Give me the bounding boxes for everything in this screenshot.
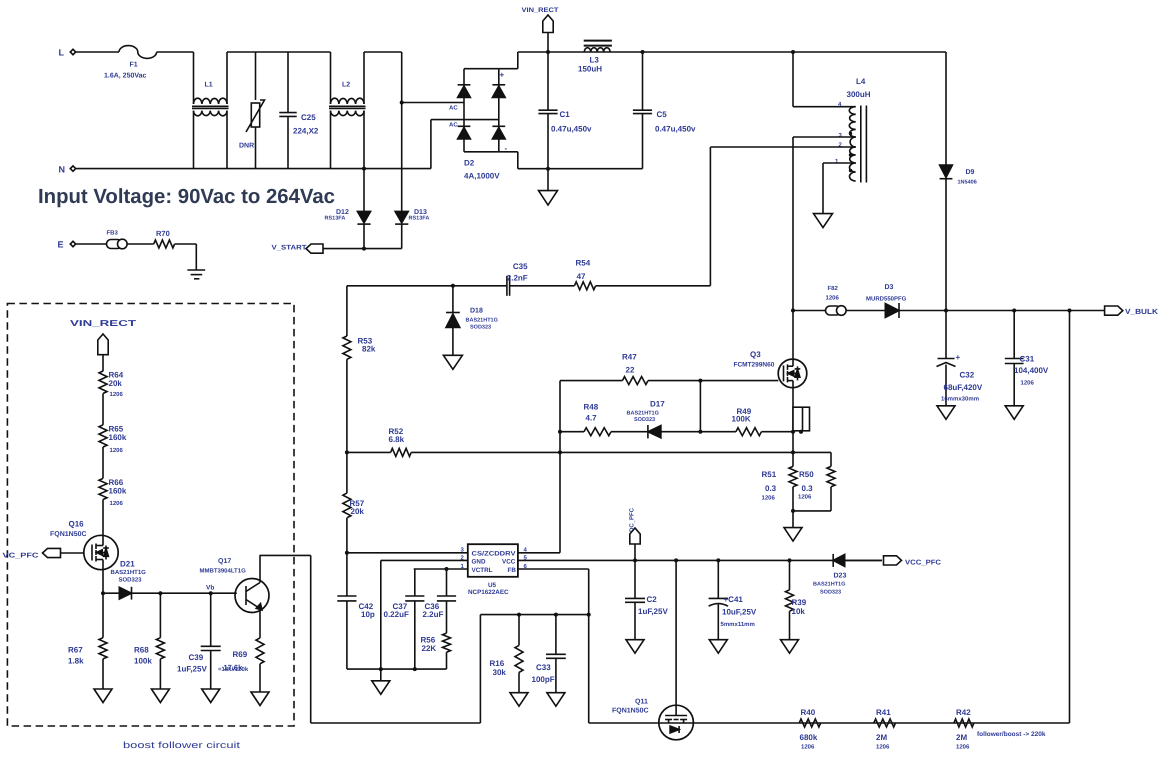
junction N-D12 — [362, 167, 366, 171]
wire L4 pin3 to switch node — [793, 137, 856, 311]
svg-text:0.22uF: 0.22uF — [384, 610, 409, 619]
ground at R67 — [94, 689, 112, 703]
diode D3 — [866, 284, 1105, 318]
transistor Q17 MMBT3904LT1G — [200, 555, 270, 638]
svg-text:100K: 100K — [732, 415, 751, 424]
resistor R68 — [134, 593, 164, 689]
svg-text:+: + — [500, 71, 505, 80]
wire FB3 to R70 — [127, 243, 154, 245]
svg-text:SOD323: SOD323 — [820, 590, 841, 596]
svg-text:10uF,25V: 10uF,25V — [722, 608, 757, 617]
node E (earth input) — [58, 240, 76, 250]
svg-text:Q3: Q3 — [750, 350, 761, 359]
svg-text:0.47u,450v: 0.47u,450v — [655, 125, 696, 134]
wire R47 to gate — [698, 379, 778, 383]
svg-text:FB3: FB3 — [107, 230, 119, 237]
resistor R57 — [343, 493, 365, 553]
svg-text:C31: C31 — [1020, 355, 1035, 364]
wire VCC to Q11 gate — [675, 560, 677, 715]
svg-text:BAS21HT1G: BAS21HT1G — [813, 582, 845, 588]
label F1 value — [104, 62, 147, 80]
svg-text:F82: F82 — [828, 285, 839, 292]
svg-text:R69: R69 — [233, 650, 248, 659]
inductor L2 (common-mode choke) — [329, 52, 366, 169]
wire VCTRL ground row — [347, 667, 447, 681]
svg-text:2.2nF: 2.2nF — [507, 274, 528, 283]
wire V_BULK feedback vertical — [1069, 311, 1071, 724]
fuse F1 — [119, 46, 157, 59]
wire VCC rail — [518, 558, 882, 562]
svg-text:R39: R39 — [792, 598, 807, 607]
svg-text:GND: GND — [472, 559, 486, 566]
ground at R16 — [510, 693, 528, 707]
ground at C39 — [202, 689, 220, 703]
svg-text:2.2uF: 2.2uF — [423, 610, 444, 619]
svg-text:1206: 1206 — [801, 744, 815, 751]
earth ground symbol — [187, 270, 205, 279]
terminal VC_PFC — [3, 548, 84, 559]
text input voltage — [38, 185, 335, 208]
svg-text:R16: R16 — [490, 659, 505, 668]
resistor R54 — [574, 259, 602, 290]
wire E to FB3 — [76, 243, 107, 245]
ground at R68 — [151, 689, 169, 703]
svg-text:68uF,420V: 68uF,420V — [944, 383, 983, 392]
svg-text:1206: 1206 — [876, 744, 890, 751]
svg-text:C25: C25 — [301, 113, 316, 122]
svg-text:0.3: 0.3 — [802, 484, 814, 493]
L4 pin numbers — [835, 101, 843, 165]
wire pin6 FB — [518, 569, 591, 723]
svg-text:RS13FA: RS13FA — [409, 216, 430, 222]
svg-text:L1: L1 — [205, 82, 213, 89]
svg-text:R68: R68 — [134, 646, 149, 655]
svg-text:R41: R41 — [876, 708, 891, 717]
svg-text:DNR: DNR — [239, 143, 254, 150]
wire top rail L2 to bridge — [364, 52, 402, 103]
svg-text:680k: 680k — [800, 733, 818, 742]
svg-text:V_BULK: V_BULK — [1125, 307, 1159, 316]
transistor Q11 FQN1N50C — [589, 699, 1070, 740]
wire rail to L4 pin4 — [793, 52, 856, 107]
svg-text:D17: D17 — [650, 400, 665, 409]
capacitor C25 — [279, 52, 319, 169]
ground at L4 pin1 — [814, 214, 833, 228]
svg-text:SOD323: SOD323 — [634, 417, 655, 423]
ferrite bead FB3 — [107, 230, 128, 249]
ground at C2 — [626, 640, 644, 654]
terminal VCC_PFC — [884, 556, 942, 567]
svg-text:100pF: 100pF — [532, 675, 555, 684]
wire source to sense — [791, 432, 795, 467]
svg-text:5mmx11mm: 5mmx11mm — [721, 621, 755, 628]
svg-text:D21: D21 — [120, 560, 135, 569]
svg-text:C2: C2 — [647, 595, 658, 604]
resistor R69 — [233, 638, 265, 692]
resistor R53 — [343, 286, 376, 360]
svg-text:20k: 20k — [351, 507, 365, 516]
wire pin4 DRV — [518, 552, 560, 554]
bridge diode bottom-left — [458, 126, 471, 139]
inductor L4 winding — [847, 77, 871, 183]
resistor R39 — [786, 560, 807, 639]
svg-text:224,X2: 224,X2 — [293, 127, 319, 136]
svg-text:R42: R42 — [956, 708, 971, 717]
resistor R48 — [560, 403, 648, 436]
svg-text:VC_PFC: VC_PFC — [3, 553, 39, 560]
ground at C41 — [709, 640, 727, 654]
svg-text:Q16: Q16 — [69, 520, 85, 529]
svg-text:30k: 30k — [493, 668, 507, 677]
svg-text:BAS21HT1G: BAS21HT1G — [627, 411, 659, 417]
bridge labels — [449, 71, 508, 181]
svg-text:C35: C35 — [513, 262, 528, 271]
svg-text:Q17: Q17 — [218, 558, 231, 565]
resistor R49 — [700, 407, 795, 436]
capacitor C31 — [1005, 311, 1049, 406]
note follower/boost — [977, 731, 1046, 738]
resistor R65 — [99, 425, 127, 479]
svg-text:1N5406: 1N5406 — [958, 180, 977, 186]
svg-text:FQN1N50C: FQN1N50C — [50, 531, 87, 538]
svg-text:boost follower circuit: boost follower circuit — [123, 740, 241, 750]
wire FB to follower — [260, 555, 481, 723]
svg-text:10k: 10k — [792, 607, 806, 616]
svg-text:1206: 1206 — [762, 495, 776, 502]
sense box below Q3 — [793, 407, 810, 434]
svg-text:1206: 1206 — [798, 494, 812, 501]
wire L4 pin1 to ground — [823, 163, 856, 214]
varistor DNR — [239, 52, 265, 169]
wire R70 to earth — [175, 244, 197, 270]
ground at C1 — [539, 167, 558, 205]
bridge rectifier D2 frame — [464, 52, 518, 169]
svg-text:1206: 1206 — [956, 744, 970, 751]
capacitor C32 (bulk electrolytic) — [937, 311, 983, 406]
svg-text:1206: 1206 — [110, 391, 124, 398]
svg-text:1.8k: 1.8k — [68, 657, 84, 666]
svg-text:22: 22 — [626, 366, 635, 375]
wire pin2 GND — [381, 560, 468, 669]
svg-text:V_START: V_START — [272, 245, 308, 252]
svg-text:Q11: Q11 — [635, 699, 648, 706]
transistor Q16 FQN1N50C — [50, 520, 118, 594]
svg-text:U5: U5 — [488, 582, 497, 589]
bridge diode top-right — [492, 85, 505, 98]
svg-text:D2: D2 — [464, 159, 475, 168]
resistor R64 — [99, 371, 124, 425]
bridge diode bottom-right — [492, 126, 505, 139]
wire chain mid — [346, 359, 348, 493]
svg-text:R40: R40 — [801, 708, 816, 717]
svg-text:L4: L4 — [856, 77, 866, 86]
svg-text:D9: D9 — [966, 169, 975, 176]
svg-text:R70: R70 — [156, 229, 170, 238]
terminal DC_PFC — [629, 507, 641, 560]
svg-text:L3: L3 — [590, 56, 600, 65]
wire top rail L1 to L2 — [227, 51, 331, 53]
ground at C31 — [1005, 406, 1023, 420]
wire AC2 step — [431, 120, 499, 169]
L4 phase dots — [849, 132, 852, 172]
ground at C33 — [547, 693, 565, 707]
node N (neutral input) — [59, 165, 76, 175]
resistor R51 — [762, 466, 798, 501]
svg-text:L: L — [59, 48, 65, 58]
wire R47-R48 link — [699, 381, 701, 432]
ground at R39 — [781, 640, 799, 654]
svg-text:N: N — [59, 165, 66, 175]
wire L to fuse — [76, 51, 119, 53]
svg-text:100k: 100k — [134, 657, 152, 666]
svg-text:22K: 22K — [422, 644, 437, 653]
svg-text:47: 47 — [577, 272, 586, 281]
wire DRV vertical — [558, 381, 562, 553]
svg-text:VCTRL: VCTRL — [472, 567, 493, 574]
terminal VIN_RECT in box — [70, 318, 137, 371]
svg-text:D18: D18 — [470, 308, 483, 315]
svg-text:R47: R47 — [622, 353, 637, 362]
label R69 alt value — [218, 663, 249, 673]
wire sense to ground — [791, 487, 795, 528]
ground at C32 — [937, 406, 955, 420]
svg-text:4A,1000V: 4A,1000V — [464, 172, 500, 181]
svg-text:20k: 20k — [109, 379, 123, 388]
op-amp U5 NCP1622AEC box — [468, 544, 518, 596]
svg-text:AC: AC — [449, 122, 458, 129]
svg-text:R67: R67 — [68, 646, 83, 655]
svg-text:NCP1622AEC: NCP1622AEC — [468, 589, 509, 596]
resistor R52 — [345, 427, 560, 456]
svg-text:+C41: +C41 — [724, 595, 744, 604]
junction Q3 drain node — [791, 309, 795, 313]
svg-text:Vb: Vb — [206, 585, 214, 592]
svg-text:1uF,25V: 1uF,25V — [177, 665, 207, 674]
svg-text:R54: R54 — [576, 259, 591, 268]
diode D13 — [395, 103, 429, 249]
svg-text:FQN1N50C: FQN1N50C — [612, 708, 649, 715]
resistor R70 — [154, 229, 175, 248]
svg-text:6.8k: 6.8k — [389, 435, 405, 444]
svg-text:L2: L2 — [342, 82, 350, 89]
resistor R40 — [799, 708, 821, 751]
capacitor C33 — [532, 615, 566, 693]
svg-text:150uH: 150uH — [578, 65, 602, 74]
wire sense row right — [560, 452, 831, 466]
svg-text:160k: 160k — [109, 487, 127, 496]
resistor R47 — [560, 353, 700, 385]
svg-text:1206: 1206 — [826, 295, 840, 302]
wire bridge minus to gnd rail — [518, 168, 643, 170]
wire rectified rail — [518, 50, 946, 54]
svg-text:MMBT3904LT1G: MMBT3904LT1G — [200, 568, 247, 575]
junction Q16 source — [101, 591, 105, 595]
resistor R66 — [99, 478, 127, 535]
svg-text:160k: 160k — [109, 433, 127, 442]
capacitor C1 — [538, 52, 592, 169]
svg-text:2M: 2M — [956, 733, 967, 742]
diode D17 — [627, 400, 703, 439]
capacitor C42 — [337, 553, 375, 669]
ground at R51 R50 — [784, 528, 802, 542]
junction dots V_BULK row — [944, 309, 1072, 313]
svg-text:follower/boost -> 220k: follower/boost -> 220k — [977, 731, 1046, 738]
fuse F82 — [826, 285, 886, 315]
terminal V_BULK — [1105, 306, 1159, 316]
terminal V_START — [272, 244, 402, 253]
svg-text:SOD323: SOD323 — [119, 577, 143, 584]
wire switch node to F82 — [793, 310, 829, 312]
svg-text:2M: 2M — [876, 733, 887, 742]
svg-text:1.6A, 250Vac: 1.6A, 250Vac — [104, 73, 147, 80]
capacitor C39 — [177, 593, 221, 689]
diode D23 — [813, 554, 882, 596]
svg-text:1206: 1206 — [110, 447, 124, 454]
resistor R16 — [490, 615, 524, 693]
svg-text:1uF,25V: 1uF,25V — [638, 607, 668, 616]
svg-text:D3: D3 — [885, 284, 894, 291]
bridge diode top-left — [458, 85, 471, 98]
inductor L1 (common-mode choke) — [192, 52, 229, 169]
wire L4 pin2 to R54 row — [602, 147, 856, 286]
svg-text:FCMT299N60: FCMT299N60 — [734, 362, 775, 369]
ground at U5 — [372, 681, 390, 695]
svg-text:C33: C33 — [536, 663, 551, 672]
svg-text:16mmx30mm: 16mmx30mm — [941, 396, 979, 403]
wire pin3 CS/ZCD — [345, 551, 468, 555]
svg-text:Input Voltage: 90Vac to 264Vac: Input Voltage: 90Vac to 264Vac — [38, 185, 335, 208]
svg-text:D23: D23 — [834, 573, 847, 580]
svg-text:VCC_PFC: VCC_PFC — [905, 559, 941, 566]
svg-text:C1: C1 — [560, 110, 571, 119]
svg-text:SOD323: SOD323 — [470, 325, 491, 331]
svg-text:4.7: 4.7 — [586, 414, 598, 423]
resistor R50 — [793, 466, 835, 511]
diode D18 — [446, 284, 498, 356]
inductor L3 — [578, 41, 612, 74]
wire fuse to L1 — [157, 51, 194, 53]
svg-text:0.3: 0.3 — [765, 484, 777, 493]
svg-text:C32: C32 — [960, 371, 975, 380]
wire FB row — [480, 613, 588, 617]
wire top rail to D9 — [945, 52, 947, 165]
resistor R41 — [874, 708, 896, 751]
svg-text:0.47u,450v: 0.47u,450v — [551, 125, 592, 134]
svg-text:300uH: 300uH — [847, 90, 871, 99]
svg-text:VIN_RECT: VIN_RECT — [70, 318, 137, 328]
svg-text:-: - — [505, 144, 508, 153]
transistor Q3 FCMT299N60 — [734, 311, 807, 432]
svg-text:104,400V: 104,400V — [1014, 366, 1049, 375]
wire pin1 VCTRL — [414, 567, 468, 571]
svg-text:AC: AC — [449, 105, 458, 112]
svg-text:1206: 1206 — [1021, 380, 1035, 387]
svg-text:CS/ZCDDRV: CS/ZCDDRV — [472, 550, 517, 557]
svg-text:1206: 1206 — [110, 500, 124, 507]
svg-text:F1: F1 — [130, 62, 138, 69]
svg-text:MURD550PFG: MURD550PFG — [866, 296, 907, 303]
resistor R67 — [68, 593, 107, 689]
svg-text:+: + — [956, 353, 961, 362]
capacitor C2 — [625, 560, 668, 639]
wire N rail — [76, 168, 431, 170]
svg-text:82k: 82k — [362, 345, 376, 354]
svg-text:FB: FB — [508, 567, 517, 574]
resistor R56 — [421, 633, 451, 669]
wire ZCD row left — [347, 285, 507, 287]
resistor R42 — [954, 708, 974, 751]
svg-text:R48: R48 — [584, 403, 599, 412]
diode D21 — [103, 560, 237, 600]
svg-text:17.6k: 17.6k — [224, 663, 244, 672]
svg-text:BAS21HT1G: BAS21HT1G — [111, 569, 147, 576]
node Vb — [206, 585, 214, 592]
svg-text:E: E — [58, 240, 64, 250]
capacitor C37 — [384, 569, 425, 669]
svg-text:10p: 10p — [361, 610, 375, 619]
capacitor C35 — [507, 262, 575, 296]
capacitor C36 — [423, 569, 457, 633]
ground at R69 — [251, 692, 269, 706]
U5 pin numbers — [461, 547, 528, 571]
wire AC1 to bridge — [400, 101, 464, 105]
diode D9 — [940, 165, 977, 311]
dashed box boost follower — [7, 304, 294, 751]
terminal VIN_RECT top — [522, 7, 559, 52]
svg-text:BAS21HT1G: BAS21HT1G — [466, 318, 498, 324]
svg-text:C5: C5 — [657, 110, 668, 119]
svg-text:R51: R51 — [762, 470, 777, 479]
svg-text:C39: C39 — [189, 653, 204, 662]
svg-text:R50: R50 — [799, 470, 814, 479]
capacitor C41 (electrolytic) — [709, 560, 757, 639]
node L (line input) — [59, 48, 76, 58]
ground at D18 — [443, 355, 462, 369]
svg-text:VCC: VCC — [502, 559, 516, 566]
capacitor C5 — [633, 52, 696, 169]
diode D12 — [325, 169, 371, 249]
svg-text:VIN_RECT: VIN_RECT — [522, 7, 559, 14]
svg-text:RS13FA: RS13FA — [325, 216, 346, 222]
